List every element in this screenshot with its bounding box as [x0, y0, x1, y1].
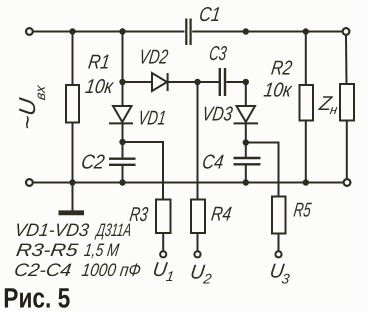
svg-text:R4: R4	[210, 204, 233, 226]
label U3	[268, 261, 291, 287]
wire C4 leads	[245, 143, 247, 159]
terminal U3	[275, 251, 281, 257]
svg-text:R2: R2	[270, 58, 294, 80]
diode VD3	[234, 106, 259, 123]
capacitor C1	[186, 19, 190, 46]
node bottom rail / R2	[303, 179, 309, 185]
label U1	[151, 259, 175, 284]
resistor R2	[300, 85, 314, 121]
capacitor C2	[109, 159, 136, 165]
wire R4 bottom lead	[197, 233, 199, 251]
svg-text:C2: C2	[80, 152, 106, 174]
node VD3 cathode / C4 / R5	[243, 139, 249, 145]
terminal U1	[160, 251, 166, 257]
note line 1: VD1-VD3 type	[13, 220, 132, 240]
node R4 tap	[194, 79, 200, 85]
svg-text:Рис. 5: Рис. 5	[3, 283, 70, 311]
node top rail / VD column	[119, 28, 125, 34]
svg-text:Д311А: Д311А	[94, 220, 133, 240]
ground	[59, 183, 85, 213]
output terminal bottom-right	[344, 179, 351, 186]
svg-text:C3: C3	[208, 43, 228, 65]
svg-text:1,5 М: 1,5 М	[83, 240, 120, 260]
node top rail / R2 column	[303, 28, 309, 34]
svg-text:R1: R1	[87, 52, 112, 74]
diode VD1	[109, 106, 133, 123]
resistor R4	[191, 200, 205, 234]
wire R5 bottom lead	[278, 234, 280, 251]
note line 2: R3-R5 value	[15, 240, 120, 260]
label input voltage ~Uvx	[14, 83, 48, 131]
svg-text:VD1-VD3: VD1-VD3	[13, 220, 90, 240]
capacitor C4	[234, 158, 261, 164]
svg-text:C2-C4: C2-C4	[13, 260, 73, 280]
wire VD2 cathode to C3	[168, 81, 219, 83]
wire R4 column	[197, 82, 199, 200]
load Zn	[340, 84, 354, 121]
node VD2 anode	[119, 79, 125, 85]
resistor R5	[272, 197, 286, 234]
node bottom rail / C4	[243, 179, 249, 185]
svg-text:VD2: VD2	[138, 47, 170, 69]
wire R2 bottom lead	[305, 121, 307, 183]
wire Zn top lead	[345, 36, 348, 84]
wire R1 top lead	[72, 32, 74, 86]
wire C2 leads	[122, 142, 124, 159]
svg-text:1000 пФ: 1000 пФ	[80, 260, 142, 280]
wire VD3 cathode	[245, 123, 247, 142]
wire Zn bottom lead	[346, 121, 348, 179]
input terminal bottom-left	[26, 179, 33, 186]
svg-text:VD1: VD1	[137, 108, 168, 130]
node bottom rail / R1 / ground	[69, 179, 75, 185]
wire VD column top	[122, 32, 124, 83]
svg-text:VD3: VD3	[201, 104, 234, 126]
diode VD2	[152, 73, 168, 91]
note line 3: C2-C4 value	[13, 260, 142, 280]
wire bottom rail	[34, 182, 343, 184]
label Zn	[317, 93, 339, 117]
wire R1 bottom lead	[72, 123, 74, 183]
output terminal top-right	[343, 28, 350, 35]
wire VD1 leads	[122, 82, 124, 106]
node VD1 cathode / C2 / R3	[119, 139, 125, 145]
capacitor C3	[220, 68, 225, 96]
node top rail / R1	[69, 28, 75, 34]
svg-text:R3-R5: R3-R5	[15, 240, 80, 260]
svg-text:~U: ~U	[14, 96, 40, 131]
wire top rail left of C1	[34, 31, 185, 33]
resistor R3	[156, 200, 171, 234]
wire C3 to VD3 column	[226, 81, 246, 83]
node VD3 anode	[243, 79, 249, 85]
wire mid rail to VD2	[123, 81, 153, 83]
node top rail / VD3 column	[243, 28, 249, 34]
wire VD3 column upper	[245, 82, 247, 106]
label U2	[189, 262, 213, 287]
input terminal top-left	[26, 28, 33, 35]
wire R3 bottom lead	[162, 233, 164, 251]
wire node to R3	[123, 142, 164, 200]
terminal U2	[194, 251, 200, 257]
svg-text:10к: 10к	[262, 80, 294, 102]
resistor R1	[66, 85, 79, 123]
svg-text:C1: C1	[198, 4, 222, 26]
wire R2 top lead	[305, 32, 307, 86]
wire node to R5	[246, 143, 279, 197]
svg-text:C4: C4	[201, 152, 225, 174]
svg-text:10к: 10к	[84, 76, 116, 98]
node bottom rail / C2	[119, 179, 125, 185]
wire top rail right of C1	[192, 31, 342, 33]
